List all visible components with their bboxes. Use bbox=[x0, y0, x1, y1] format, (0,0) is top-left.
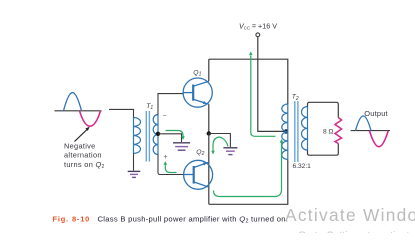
svg-text:Fig. 8-10: Fig. 8-10 bbox=[53, 215, 91, 224]
svg-text:Q2: Q2 bbox=[196, 149, 204, 157]
current flow: into Q2 base from plus terminal (green) bbox=[165, 165, 176, 173]
transformer T2 secondary winding bbox=[302, 107, 308, 151]
ground (emitters) bbox=[223, 148, 237, 155]
node T2 center tap bbox=[284, 129, 288, 133]
svg-text:Negative: Negative bbox=[64, 141, 96, 150]
output negative half (pink) bbox=[369, 131, 388, 147]
wire T1 secondary top to Q1 base bbox=[158, 94, 183, 115]
svg-text:Activate Windows: Activate Windows bbox=[285, 205, 415, 225]
svg-text:turns on Q2: turns on Q2 bbox=[64, 160, 105, 170]
output axis line bbox=[351, 130, 390, 132]
svg-text:T2: T2 bbox=[292, 94, 299, 102]
load loop wires bbox=[308, 102, 339, 155]
node emitters junction bbox=[207, 131, 211, 135]
VCC terminal bbox=[256, 33, 260, 37]
transformer T1 primary winding bbox=[134, 118, 141, 154]
svg-text:+: + bbox=[163, 154, 167, 161]
svg-text:8 Ω: 8 Ω bbox=[323, 129, 333, 136]
svg-text:Class B push-pull power amplif: Class B push-pull power amplifier with Q… bbox=[98, 215, 289, 225]
wire Q1 emitter down to node bbox=[208, 104, 210, 133]
transformer T1 core bbox=[146, 111, 149, 162]
wire T1 primary bottom to ground bbox=[133, 154, 135, 171]
wire T1 center tap to ground bbox=[158, 134, 182, 142]
ground (T1 center tap) bbox=[173, 143, 190, 150]
wire T1 secondary bottom to Q2 base bbox=[158, 155, 184, 175]
current flow: ground to Q2 emitter (green) bbox=[213, 137, 228, 151]
wire emitters node to ground bbox=[209, 134, 231, 148]
current flow: center tap up to VCC (green) bbox=[251, 56, 276, 137]
svg-text:alternation: alternation bbox=[64, 151, 102, 160]
current flow: Q2 collector through bottom to T2 (green) bbox=[214, 143, 282, 197]
resistor RL 8 ohm (zigzag) bbox=[335, 118, 342, 144]
node T1 center tap bbox=[156, 132, 160, 136]
current flow: center tap to ground (green) bbox=[166, 131, 184, 137]
output positive half (blue) bbox=[356, 116, 372, 131]
svg-text:6.32:1: 6.32:1 bbox=[293, 163, 312, 170]
transformer T1 secondary winding bbox=[153, 115, 158, 155]
wire VCC to T2 center tap bbox=[258, 37, 286, 131]
transformer T2 core bbox=[295, 101, 298, 162]
transistor Q2 bbox=[184, 160, 213, 189]
svg-text:−: − bbox=[163, 113, 167, 120]
svg-text:Output: Output bbox=[364, 109, 388, 118]
svg-text:Go to Settings to activate: Go to Settings to activate bbox=[298, 230, 415, 234]
svg-text:Q1: Q1 bbox=[193, 70, 201, 78]
top rail to T2 primary top bbox=[209, 59, 288, 104]
wire node through Q2 to bottom rail bbox=[208, 134, 210, 205]
input signal positive half (blue) bbox=[64, 93, 82, 111]
transformer T2 primary winding bbox=[282, 104, 288, 160]
transistor Q1 bbox=[183, 78, 212, 107]
input signal axis line bbox=[55, 110, 102, 112]
svg-text:T1: T1 bbox=[146, 103, 153, 111]
ground (T1 primary) bbox=[128, 171, 141, 177]
wire Q1 collector to top rail bbox=[208, 59, 210, 81]
input signal negative alternation (pink) bbox=[80, 111, 101, 126]
bottom rail Q2 collector to T2 primary bottom bbox=[209, 160, 288, 205]
arrow to negative alternation bbox=[75, 127, 90, 142]
wire source to T1 primary top bbox=[109, 109, 134, 117]
